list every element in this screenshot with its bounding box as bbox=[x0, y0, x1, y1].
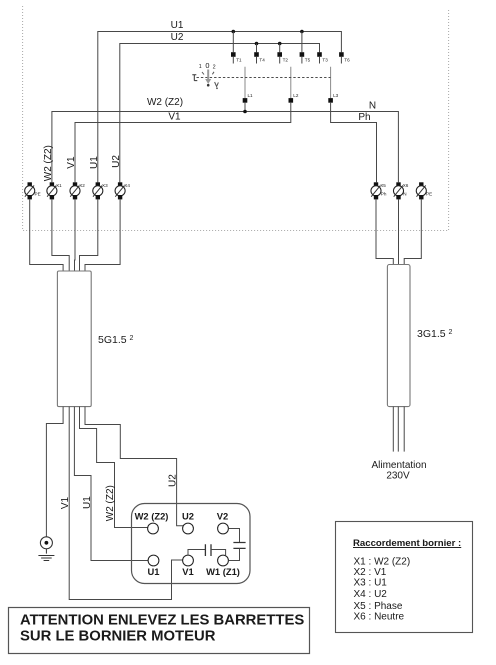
wire W2(Z2)-N line bbox=[52, 112, 399, 183]
wire Ph line bbox=[331, 103, 377, 183]
cable 5G1.5 bbox=[57, 271, 91, 407]
svg-text:X6 : Neutre: X6 : Neutre bbox=[354, 612, 405, 623]
svg-text:U2: U2 bbox=[171, 32, 184, 43]
switch S1 fixed contacts T1 T4 T2 T5 T3 T6 bbox=[231, 52, 350, 63]
wire V1 cable to motor bbox=[69, 407, 183, 600]
svg-text:U1: U1 bbox=[148, 566, 160, 577]
wire V1 line bbox=[75, 103, 291, 183]
capacitor C2 from V2 to W1 bbox=[228, 529, 245, 561]
svg-text:V1: V1 bbox=[60, 496, 71, 509]
cable 3G1.5 bbox=[387, 265, 410, 407]
legend box Raccordement bornier bbox=[336, 522, 473, 633]
wire U1 bus bbox=[98, 32, 342, 183]
wire X5 to cable bbox=[376, 199, 393, 265]
svg-text:W1 (Z1): W1 (Z1) bbox=[206, 566, 240, 577]
svg-text:PE: PE bbox=[426, 191, 432, 196]
svg-text:W2 (Z2): W2 (Z2) bbox=[105, 485, 116, 521]
svg-text:Ph: Ph bbox=[381, 191, 387, 196]
wire supply L bbox=[392, 407, 394, 452]
svg-text:ATTENTION ENLEVEZ LES BARRETTE: ATTENTION ENLEVEZ LES BARRETTES bbox=[20, 613, 304, 629]
wire T1 stub bbox=[232, 32, 234, 53]
svg-text:U1: U1 bbox=[171, 20, 184, 31]
wire L1 drop bbox=[244, 103, 246, 112]
dotted enclosure border bbox=[23, 6, 449, 231]
svg-text:X4 : U2: X4 : U2 bbox=[354, 589, 388, 600]
svg-text:W2 (Z2): W2 (Z2) bbox=[135, 511, 169, 522]
svg-text:U2: U2 bbox=[182, 511, 194, 522]
svg-text:X2: X2 bbox=[79, 183, 85, 188]
svg-text:5G1.5 2: 5G1.5 2 bbox=[98, 334, 134, 346]
svg-text:L3: L3 bbox=[333, 93, 339, 98]
wire X4 to cable bbox=[85, 199, 120, 271]
svg-text:T4: T4 bbox=[259, 58, 265, 63]
warning box bbox=[9, 608, 310, 654]
wire U1 cable to motor bbox=[74, 407, 148, 561]
terminal X5 Ph bbox=[371, 182, 387, 199]
svg-text:T1: T1 bbox=[236, 58, 242, 63]
motor terminal U2 bbox=[183, 523, 194, 534]
wire U2 cable to motor bbox=[85, 407, 184, 526]
svg-text:U1: U1 bbox=[82, 496, 93, 509]
svg-text:X1 : W2 (Z2): X1 : W2 (Z2) bbox=[354, 557, 411, 568]
svg-text:U2: U2 bbox=[111, 155, 122, 168]
svg-text:X4: X4 bbox=[124, 183, 130, 188]
terminal X3 bbox=[93, 182, 108, 199]
svg-text:W2 (Z2): W2 (Z2) bbox=[147, 97, 183, 108]
wire PE left to cable bbox=[30, 199, 63, 271]
svg-text:Alimentation: Alimentation bbox=[371, 460, 426, 471]
svg-text:Raccordement bornier :: Raccordement bornier : bbox=[353, 538, 461, 549]
svg-text:V1: V1 bbox=[66, 156, 77, 169]
wire X1 to cable bbox=[52, 199, 69, 271]
svg-text:L2: L2 bbox=[293, 93, 299, 98]
svg-text:0: 0 bbox=[205, 61, 209, 70]
svg-text:T3: T3 bbox=[322, 58, 328, 63]
ground PE symbol bbox=[38, 537, 54, 561]
wire supply PE bbox=[403, 407, 405, 452]
terminal PE left bbox=[25, 182, 41, 199]
svg-text:X3 : U1: X3 : U1 bbox=[354, 578, 388, 589]
motor terminal box bbox=[132, 504, 251, 584]
svg-text:N: N bbox=[369, 101, 376, 112]
switch S1 actuator dashed link bbox=[197, 77, 331, 79]
motor terminal W1 (Z1) bbox=[218, 555, 229, 566]
terminal X4 bbox=[115, 182, 130, 199]
wire W2 cable to motor bbox=[80, 407, 148, 528]
svg-text:2: 2 bbox=[213, 64, 216, 70]
svg-text:230V: 230V bbox=[386, 471, 410, 482]
svg-text:U2: U2 bbox=[168, 474, 179, 487]
wire supply N bbox=[397, 407, 399, 452]
node U1-T1 bbox=[232, 30, 236, 34]
motor terminal W2 (Z2) bbox=[148, 523, 159, 534]
terminal PE right bbox=[416, 182, 432, 199]
wire T2 stub bbox=[279, 44, 281, 53]
svg-text:T2: T2 bbox=[283, 58, 289, 63]
wire PE right to cable bbox=[404, 199, 421, 265]
terminal X6 N bbox=[393, 182, 408, 199]
svg-text:X3: X3 bbox=[102, 183, 108, 188]
terminal X1 bbox=[47, 182, 62, 199]
svg-text:T6: T6 bbox=[344, 58, 350, 63]
svg-text:V1: V1 bbox=[182, 566, 193, 577]
node U2-T4 bbox=[255, 42, 259, 46]
wire X6 to cable bbox=[398, 199, 400, 265]
svg-text:W2 (Z2): W2 (Z2) bbox=[43, 145, 54, 181]
node L1-N bbox=[243, 110, 247, 114]
capacitor C1 between V1 and W1 bbox=[188, 544, 226, 556]
node U2-T2 bbox=[278, 42, 282, 46]
svg-text:X5: X5 bbox=[380, 183, 386, 188]
svg-text:X6: X6 bbox=[403, 183, 409, 188]
svg-text:V2: V2 bbox=[217, 511, 228, 522]
svg-text:PE: PE bbox=[35, 191, 41, 196]
motor terminal U1 bbox=[148, 555, 159, 566]
motor terminal V1 bbox=[183, 555, 194, 566]
svg-text:V1: V1 bbox=[168, 111, 181, 122]
svg-text:X5 : Phase: X5 : Phase bbox=[354, 601, 403, 612]
wire X2 to cable bbox=[74, 199, 77, 271]
terminal X2 bbox=[70, 182, 85, 199]
svg-text:1: 1 bbox=[199, 64, 202, 70]
svg-text:3G1.5 2: 3G1.5 2 bbox=[417, 328, 453, 340]
svg-text:L1: L1 bbox=[248, 93, 254, 98]
wire U2 bus bbox=[120, 44, 320, 183]
switch S1 position symbol 1-0-2 bbox=[192, 61, 218, 89]
wire T5 stub bbox=[301, 32, 303, 53]
wire PE cable to ground bbox=[46, 407, 63, 537]
svg-text:U1: U1 bbox=[89, 156, 100, 169]
node U1-T5 bbox=[300, 30, 304, 34]
wire T4 stub bbox=[256, 44, 258, 53]
svg-text:Ph: Ph bbox=[358, 112, 370, 123]
switch S1 moving contacts L1 L2 L3 bbox=[243, 67, 339, 103]
svg-text:X2 : V1: X2 : V1 bbox=[354, 567, 387, 578]
wire X3 to cable bbox=[80, 199, 98, 271]
motor terminal V2 bbox=[218, 523, 229, 534]
svg-text:N: N bbox=[403, 191, 406, 196]
svg-text:SUR LE BORNIER MOTEUR: SUR LE BORNIER MOTEUR bbox=[20, 629, 216, 645]
svg-text:T5: T5 bbox=[305, 58, 311, 63]
svg-text:X1: X1 bbox=[56, 183, 62, 188]
